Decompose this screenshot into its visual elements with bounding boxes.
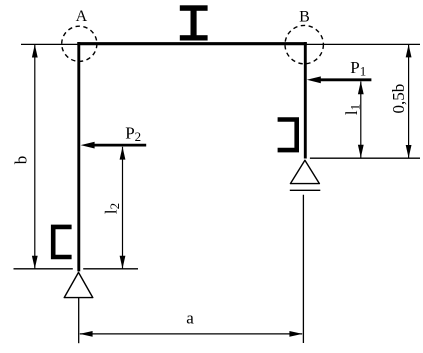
right extension line under column — [310, 157, 420, 159]
svg-text:b: b — [12, 156, 31, 165]
frame beam AB — [77, 42, 306, 45]
svg-text:a: a — [186, 309, 194, 328]
right column — [304, 42, 307, 159]
right a-extension line — [302, 195, 304, 343]
svg-text:0,5b: 0,5b — [389, 84, 408, 114]
left a-extension line — [78, 298, 80, 344]
right roller support line — [290, 189, 321, 191]
left pinned support triangle — [64, 272, 93, 297]
svg-text:B: B — [299, 9, 310, 26]
dimension l1 — [358, 81, 364, 158]
node B dashed circle — [285, 25, 323, 63]
dimension l2 — [120, 147, 126, 269]
right roller support triangle — [290, 160, 319, 183]
lower-left extension line (left segment) — [14, 268, 73, 270]
left column — [77, 42, 80, 271]
left channel section symbol — [53, 227, 71, 257]
load P1 arrow — [307, 76, 372, 83]
lower-left extension line (right segment) — [83, 268, 138, 270]
top extension line — [21, 43, 420, 45]
dimension 0,5b — [406, 44, 412, 158]
node A dashed circle — [62, 26, 97, 61]
dimension a — [80, 331, 303, 337]
svg-text:A: A — [76, 8, 88, 25]
dimension b — [32, 45, 38, 269]
load P2 arrow — [81, 142, 147, 149]
right channel section symbol — [278, 120, 297, 151]
I-beam cross-section symbol — [180, 5, 208, 40]
